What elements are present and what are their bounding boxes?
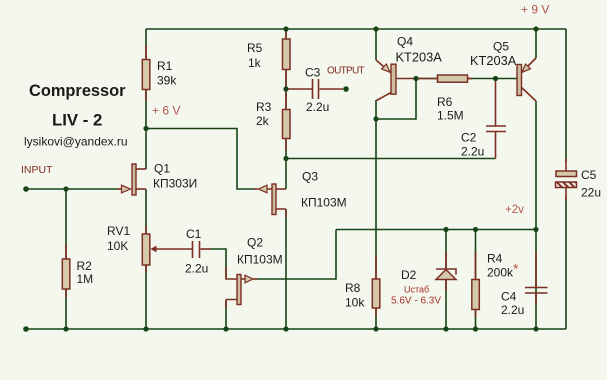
resistor R5 [285, 31, 287, 39]
wire Q4 emitter [375, 29, 377, 60]
junction top rail Q5 [533, 26, 538, 31]
junction ground Q3 [283, 326, 288, 331]
svg-text:R2: R2 [77, 259, 93, 273]
resistor R6 [438, 75, 468, 82]
capacitor C2 [495, 80, 497, 126]
capacitor C3 [288, 88, 312, 90]
wire node C2-Q3 drain [286, 158, 496, 160]
wire Q4 collector loop [376, 79, 416, 120]
transistor Q3 KP103M p-JFET [254, 188, 258, 190]
junction ground Q2 [223, 326, 228, 331]
svg-text:КП103М: КП103М [301, 196, 347, 210]
wire R5 R3 chain [285, 29, 287, 189]
svg-text:RV1: RV1 [107, 224, 130, 238]
transistor Q5 KT203A pnp [522, 58, 537, 73]
capacitor C1 [193, 241, 200, 258]
svg-text:R8: R8 [345, 281, 361, 295]
resistor R4 [475, 252, 477, 280]
wire Q5 collector to +2v [535, 101, 537, 230]
svg-text:Q1: Q1 [154, 162, 170, 176]
svg-text:5.6V - 6.3V: 5.6V - 6.3V [391, 296, 441, 307]
svg-text:2.2u: 2.2u [461, 145, 484, 159]
svg-text:OUTPUT: OUTPUT [327, 66, 365, 77]
junction top rail R5 [283, 26, 288, 31]
junction ground D2 [443, 326, 448, 331]
junction +2v D2 [443, 227, 448, 232]
svg-text:10K: 10K [107, 239, 128, 253]
wire R1 top [145, 29, 147, 169]
junction R5 C3 tap [283, 86, 288, 91]
junction Q5 base C2 [493, 76, 498, 81]
junction top rail Q4 [373, 26, 378, 31]
junction ground R2 [63, 326, 68, 331]
wire R8 branch [375, 119, 377, 329]
node OUTPUT terminal [343, 86, 349, 92]
svg-text:C4: C4 [501, 290, 517, 304]
capacitor C5 electrolytic [565, 158, 567, 171]
svg-text:Compressor: Compressor [29, 82, 126, 100]
wire Q3 source to ground [285, 209, 287, 329]
potentiometer RV1 [145, 226, 147, 234]
svg-text:2k: 2k [256, 114, 270, 128]
svg-text:C5: C5 [581, 168, 597, 182]
svg-text:2.2u: 2.2u [185, 262, 208, 276]
node INPUT terminal [23, 186, 29, 192]
wire Q2 source to ground [225, 300, 227, 330]
svg-text:R1: R1 [157, 59, 173, 73]
junction ground R4 [473, 326, 478, 331]
svg-text:Q3: Q3 [302, 170, 318, 184]
svg-text:C2: C2 [461, 131, 477, 145]
junction R3 Q3 drain [283, 156, 288, 161]
node ground left terminal [23, 326, 29, 332]
svg-text:Uстаб: Uстаб [404, 285, 429, 295]
wire +2v rail [336, 229, 536, 231]
junction ground C4 [533, 326, 538, 331]
wire Q2 gate to +2v [257, 230, 336, 280]
svg-text:+ 9 V: + 9 V [521, 3, 549, 17]
wire right branch to C5 [565, 29, 567, 162]
svg-text:C1: C1 [186, 227, 202, 241]
svg-text:2.2u: 2.2u [501, 303, 524, 317]
capacitor C4 [535, 252, 537, 288]
svg-text:D2: D2 [401, 268, 417, 282]
svg-text:R4: R4 [487, 252, 503, 266]
wire +9V top rail [146, 28, 566, 30]
junction ground RV1 [143, 326, 148, 331]
wire C5 bottom to ground rail [565, 197, 567, 329]
wire ground bottom rail [26, 328, 566, 330]
svg-text:Q2: Q2 [247, 236, 263, 250]
wire Q4 base to R6 [416, 78, 437, 80]
svg-text:Q5: Q5 [493, 40, 509, 54]
svg-text:КП103М: КП103М [237, 253, 283, 267]
svg-text:lysikovi@yandex.ru: lysikovi@yandex.ru [24, 135, 128, 149]
svg-text:LIV - 2: LIV - 2 [52, 111, 102, 130]
resistor R1 [145, 45, 147, 60]
svg-text:1k: 1k [248, 56, 262, 70]
wire input net [26, 188, 118, 190]
junction +2v C4 Q5 [533, 227, 538, 232]
svg-text:Q4: Q4 [397, 35, 413, 49]
svg-text:КП303И: КП303И [153, 177, 197, 191]
transistor Q2 KP103M p-JFET [226, 267, 237, 279]
resistor R2 [65, 244, 67, 259]
wire D2 branch [445, 230, 447, 330]
svg-text:39k: 39k [157, 74, 177, 88]
svg-text:C3: C3 [305, 66, 321, 80]
junction +2v R4 [473, 227, 478, 232]
junction Q4 collector [373, 116, 378, 121]
junction input R2 [63, 186, 68, 191]
zener diode D2 [445, 252, 447, 269]
transistor Q4 KT203A pnp [376, 60, 391, 73]
wire R4 branch [475, 230, 477, 330]
wire R2 branch [65, 189, 67, 329]
junction +6V node [143, 126, 148, 131]
wire RV1 wiper C1 to Q2 drain [210, 249, 226, 279]
svg-text:KT203A: KT203A [396, 50, 443, 65]
svg-text:*: * [513, 261, 519, 277]
wire R6 to Q5 base [468, 78, 517, 80]
svg-text:2.2u: 2.2u [306, 100, 329, 114]
svg-text:R3: R3 [256, 100, 272, 114]
svg-text:+ 6 V: + 6 V [152, 104, 180, 118]
svg-text:10k: 10k [345, 296, 365, 310]
wire Q1 source to RV1 to ground [145, 189, 147, 329]
transistor Q1 KP303I n-JFET [117, 188, 121, 190]
svg-text:R5: R5 [247, 41, 263, 55]
svg-text:1M: 1M [77, 272, 94, 286]
svg-text:R6: R6 [437, 95, 453, 109]
svg-text:200k: 200k [487, 266, 514, 280]
wire C4 branch [535, 230, 537, 330]
junction Q4 base R6 [413, 76, 418, 81]
svg-text:1.5M: 1.5M [437, 109, 464, 123]
svg-text:KT203A: KT203A [470, 53, 517, 68]
svg-text:INPUT: INPUT [21, 164, 53, 176]
svg-text:+2v: +2v [505, 204, 524, 216]
wire +6V node to Q3 gate [146, 129, 254, 190]
resistor R8 [375, 255, 377, 279]
wire Q5 emitter [535, 29, 537, 58]
resistor R3 [285, 139, 287, 152]
svg-text:22u: 22u [581, 186, 601, 200]
junction ground R8 [373, 326, 378, 331]
